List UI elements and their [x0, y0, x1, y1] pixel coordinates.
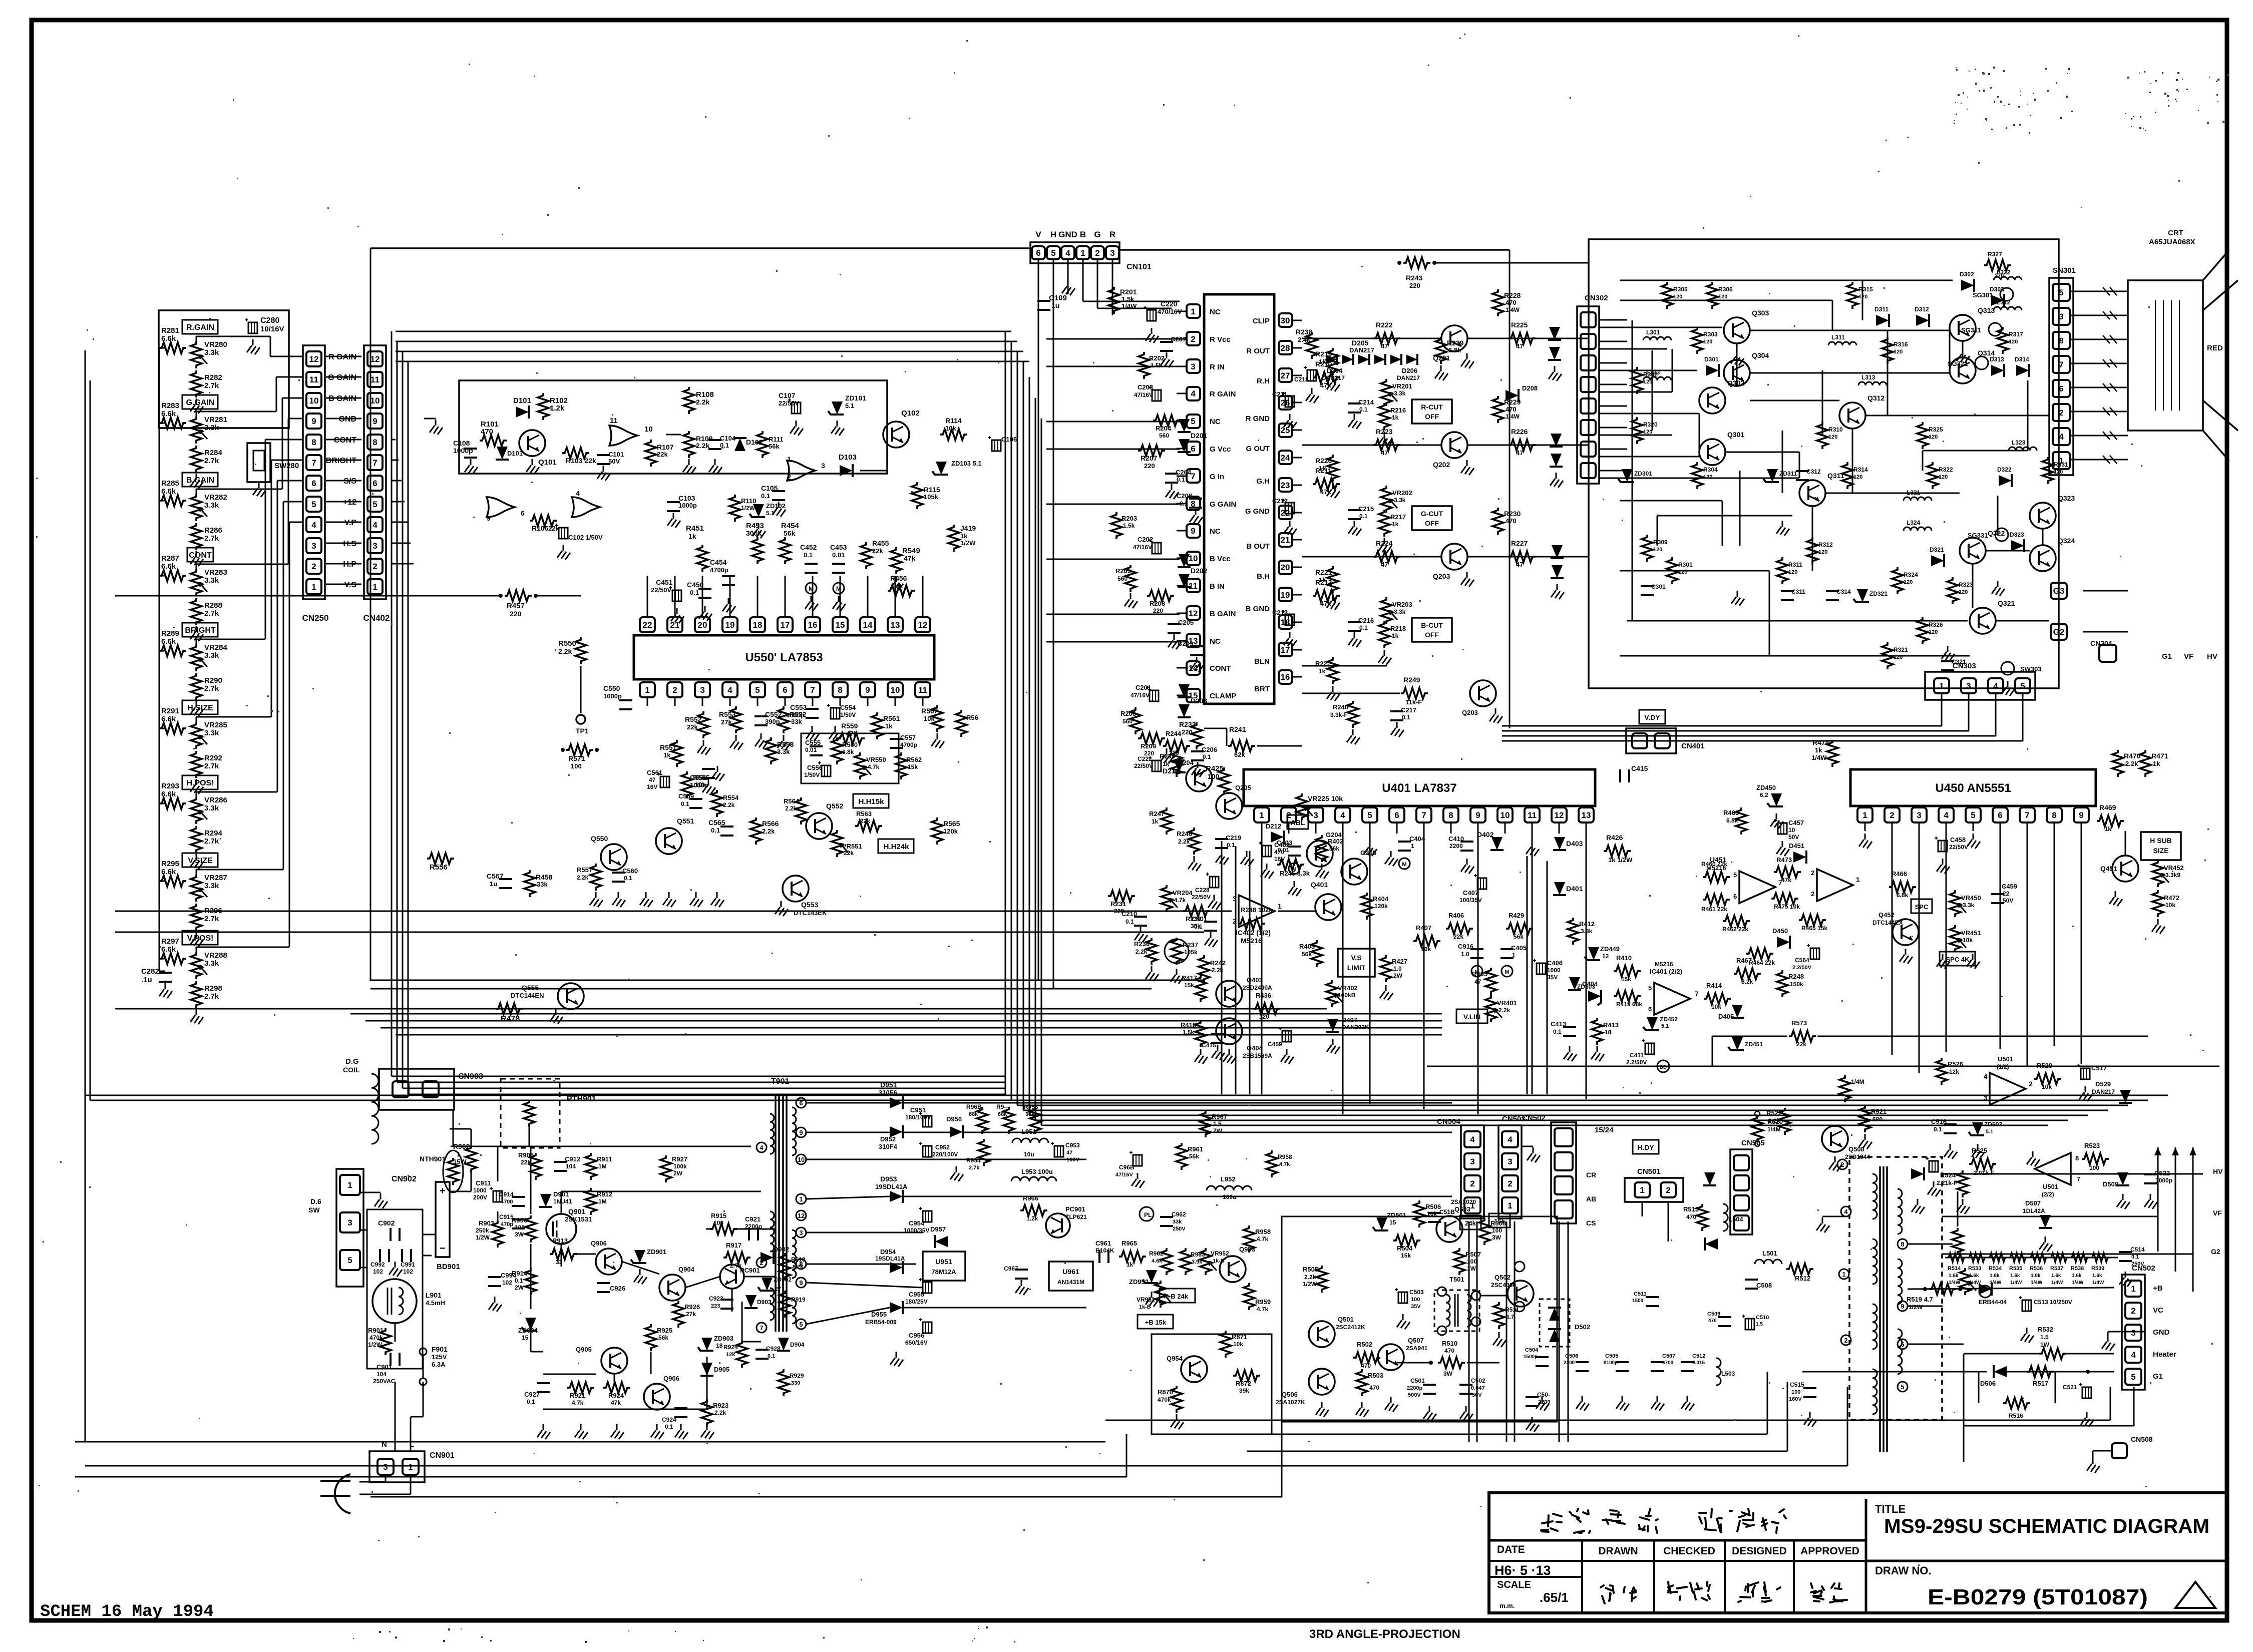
resistor R231b 1k BLN	[1327, 657, 1338, 684]
svg-text:NC: NC	[1210, 308, 1221, 316]
potentiometer VR283 3.3k	[191, 569, 202, 596]
svg-text:10: 10	[309, 396, 319, 405]
resistor R952 68k 1/4W	[1003, 1107, 1014, 1134]
resistor R919	[780, 1291, 791, 1318]
svg-text:R404: R404	[1373, 895, 1389, 903]
capacitor C516 0.1	[1944, 1123, 1957, 1125]
svg-text:C211: C211	[1272, 390, 1287, 398]
svg-text:C219: C219	[1226, 834, 1241, 842]
T901 secondary pin 1	[796, 1194, 806, 1204]
resistor R240 3.3k-F	[1347, 701, 1358, 728]
transistor Q301	[1699, 439, 1725, 465]
svg-text:15/24: 15/24	[1595, 1126, 1614, 1134]
resistor R535 1.6k 1/4W	[2009, 1253, 2027, 1262]
svg-text:C504: C504	[1525, 1347, 1539, 1353]
pin 30 of U201 (right)	[1279, 313, 1292, 327]
svg-text:1.7: 1.7	[1507, 1314, 1514, 1320]
svg-text:17: 17	[1281, 645, 1290, 655]
svg-text:R412: R412	[1579, 920, 1595, 928]
svg-text:C516: C516	[1931, 1118, 1947, 1125]
wire G1 line	[1802, 1371, 1987, 1373]
svg-text:22k: 22k	[860, 817, 870, 824]
diode D901 1NU41	[539, 1194, 552, 1207]
svg-text:102: 102	[502, 1279, 512, 1286]
svg-text:6: 6	[1998, 810, 2002, 820]
capacitor C213 25V	[1285, 614, 1294, 625]
svg-text:10u: 10u	[1024, 1151, 1034, 1158]
pin 2 of U550	[667, 682, 682, 697]
transistor Q550	[601, 844, 627, 870]
flyback supply box	[1282, 1216, 1557, 1422]
svg-text:2.2k: 2.2k	[2125, 760, 2138, 767]
capacitor C948 47/16V	[1133, 1155, 1142, 1166]
IC U401 LA7837	[1244, 769, 1595, 806]
resistor R203 1.5k 1/4W	[1111, 512, 1122, 539]
capacitor C105 0.1	[772, 490, 785, 492]
resistor R926 27k	[673, 1301, 684, 1328]
diode D322	[1999, 474, 2012, 487]
svg-text:R419 68k: R419 68k	[1616, 1001, 1642, 1008]
svg-text:0.1: 0.1	[1125, 918, 1134, 925]
resistor R208 220	[1147, 590, 1174, 601]
svg-text:R288: R288	[204, 601, 222, 610]
svg-text:R203: R203	[1121, 515, 1137, 522]
diode D951 310F6	[890, 1096, 903, 1109]
ground ZD102	[758, 523, 760, 529]
pin 27 of U201 (right)	[1279, 368, 1292, 382]
signature DRAWN 相川 (handwritten strokes)	[1601, 1585, 1614, 1603]
capacitor C450 0.1	[698, 588, 711, 590]
svg-text:R56: R56	[966, 714, 978, 721]
wire top rail	[370, 247, 1029, 249]
svg-text:1: 1	[1080, 248, 1085, 258]
svg-text:180/100V: 180/100V	[905, 1114, 931, 1121]
capacitor C406 1000 35V	[1537, 963, 1546, 974]
svg-text:DAN217: DAN217	[2092, 1088, 2115, 1095]
svg-text:1: 1	[1508, 1201, 1512, 1210]
capacitor C411 2.2/50V	[1645, 1043, 1654, 1054]
wire CN902 pins to filter	[360, 1229, 367, 1231]
resistor R410 15k	[1614, 966, 1641, 977]
svg-text:C557: C557	[900, 734, 916, 741]
svg-text:3: 3	[1110, 248, 1114, 258]
svg-text:6.6k: 6.6k	[161, 868, 176, 876]
svg-text:PL: PL	[1144, 1211, 1152, 1218]
svg-text:R567: R567	[921, 707, 938, 715]
resistor R522 2.2k	[1779, 1108, 1790, 1135]
svg-text:G3: G3	[2053, 586, 2065, 596]
svg-text:15k: 15k	[1184, 982, 1194, 989]
svg-text:CLIP: CLIP	[1253, 317, 1270, 325]
svg-text:2: 2	[1508, 1179, 1512, 1188]
svg-text:3: 3	[821, 462, 825, 470]
resistor R967 1.5 7W	[1200, 1110, 1211, 1137]
scan smudge top right	[1988, 73, 1990, 75]
transistor Q905	[601, 1348, 627, 1374]
svg-text:NC: NC	[1210, 637, 1221, 646]
resistor R905 22k	[530, 1153, 541, 1180]
svg-text:15k: 15k	[1401, 1252, 1411, 1259]
resistor R316	[1882, 337, 1893, 364]
svg-text:HV: HV	[2207, 652, 2217, 661]
svg-text:R470: R470	[2124, 752, 2141, 760]
svg-text:R327: R327	[1988, 251, 2002, 258]
resistor R533 1.6k 1/4W	[1968, 1253, 1986, 1262]
svg-text:7: 7	[1191, 472, 1195, 481]
svg-text:1/2W: 1/2W	[368, 1341, 383, 1348]
svg-text:Q302: Q302	[1727, 379, 1744, 387]
transistor Q101	[519, 430, 545, 456]
svg-text:4.6k: 4.6k	[1152, 1258, 1163, 1264]
svg-text:ZD101: ZD101	[845, 394, 866, 402]
svg-text:D955: D955	[871, 1311, 887, 1318]
svg-text:SW280: SW280	[274, 462, 299, 470]
svg-text:1: 1	[457, 1150, 460, 1158]
pin 13 of U550	[888, 617, 903, 632]
resistor R201 1.5k 1/4W	[1108, 287, 1119, 314]
svg-text:R403: R403	[1299, 943, 1315, 950]
resistor R523 100	[2082, 1153, 2109, 1164]
capacitor C956 650/16V	[923, 1322, 932, 1333]
svg-text:C560: C560	[622, 867, 638, 875]
svg-text:C213: C213	[1272, 609, 1288, 616]
svg-text:6: 6	[799, 1099, 803, 1107]
resistor R311	[1777, 557, 1788, 584]
ground under R292	[196, 779, 197, 785]
inductor L504	[1723, 1204, 1728, 1231]
wire VF long	[1942, 1173, 2203, 1175]
svg-text:CN502: CN502	[2132, 1264, 2155, 1273]
transistor Q401	[1315, 894, 1341, 920]
capacitor C912 104	[554, 1161, 567, 1163]
resistor R103 22k	[562, 448, 589, 459]
svg-text:1W: 1W	[2040, 1341, 2050, 1348]
wire horizontal mid-left y2015	[115, 1008, 1327, 1010]
connector CN302	[1577, 306, 1599, 484]
regulator U951 78M12A	[923, 1252, 965, 1281]
inductor L301	[1643, 337, 1671, 340]
wire stubs above U550 pins	[647, 576, 648, 610]
svg-text:1.6k: 1.6k	[1949, 1273, 1959, 1279]
svg-text:9: 9	[1901, 1303, 1904, 1310]
svg-text:2: 2	[1666, 1185, 1670, 1195]
wire bus CN402 to video IC (horizontal bundle)	[396, 331, 1011, 332]
svg-text:C512: C512	[1692, 1353, 1705, 1359]
svg-text:C101: C101	[608, 451, 624, 458]
flyback pin 4	[1841, 1206, 1851, 1216]
wire PSU R902 top	[471, 1129, 472, 1146]
svg-text:CN902: CN902	[392, 1175, 417, 1183]
T901 secondary pin 8	[796, 1259, 806, 1269]
svg-text:R473: R473	[1776, 856, 1792, 864]
svg-text:0.1: 0.1	[768, 1353, 775, 1359]
svg-text:A65JUA068X: A65JUA068X	[2149, 238, 2195, 246]
resistor R331	[2042, 457, 2053, 484]
svg-text:C410: C410	[1448, 835, 1464, 843]
capacitor C927 0.1	[537, 1382, 550, 1384]
transistor Q206 blanking	[1470, 680, 1496, 706]
svg-text:8: 8	[2075, 1154, 2079, 1162]
svg-text:ZD449: ZD449	[1600, 945, 1620, 953]
resistor R532 1.5 1W	[2039, 1348, 2066, 1359]
resistor R405 47	[1485, 968, 1496, 995]
svg-text:BLN: BLN	[1254, 657, 1270, 666]
svg-text:7W: 7W	[1213, 1127, 1223, 1134]
svg-text:VR225 10k: VR225 10k	[1308, 794, 1343, 802]
svg-text:18: 18	[716, 1342, 723, 1349]
svg-text:9: 9	[311, 417, 316, 426]
svg-text:R508: R508	[1490, 1219, 1506, 1227]
wire horizontal mid-left y1860	[115, 932, 1204, 933]
svg-text:VR450: VR450	[1961, 894, 1981, 902]
svg-text:5.1: 5.1	[845, 402, 854, 409]
svg-text:R558: R558	[777, 740, 794, 748]
svg-text:50V: 50V	[1788, 834, 1799, 841]
svg-text:R405: R405	[1472, 970, 1487, 978]
svg-text:+B: +B	[2153, 1284, 2163, 1293]
resistor R525 2.01k-F	[1969, 1158, 1996, 1169]
svg-text:3.3k: 3.3k	[204, 651, 219, 660]
svg-text:10k: 10k	[1233, 1341, 1243, 1348]
svg-text:R521: R521	[1871, 1108, 1887, 1115]
transistor Q503 2SA1020	[1436, 1216, 1462, 1242]
svg-text:470: 470	[1686, 1213, 1696, 1220]
pin 3 of CN303	[1961, 678, 1976, 693]
resistor R872 39k	[1233, 1370, 1260, 1381]
svg-text:R516: R516	[2009, 1412, 2023, 1419]
IC U201 video amp body	[1204, 294, 1274, 704]
svg-text:TLP621: TLP621	[1065, 1213, 1087, 1220]
svg-text:12k: 12k	[1949, 1068, 1959, 1075]
svg-text:D201: D201	[1191, 432, 1208, 440]
svg-text:R202: R202	[1149, 354, 1165, 362]
capacitor C554 1/50V	[831, 708, 840, 719]
svg-text:R533: R533	[1968, 1266, 1981, 1272]
svg-text:3.3k9: 3.3k9	[2165, 872, 2180, 879]
svg-text:R523: R523	[2084, 1142, 2100, 1149]
svg-text:GND: GND	[2153, 1328, 2170, 1337]
svg-text:150k: 150k	[1790, 981, 1803, 988]
flyback pin 2	[1841, 1335, 1851, 1345]
wires CN101 pins down	[1038, 259, 1039, 280]
svg-text:R321: R321	[1894, 646, 1908, 653]
svg-text:R: R	[1109, 230, 1115, 239]
resistor R561 1k	[872, 712, 883, 739]
svg-text:R961: R961	[1188, 1145, 1203, 1153]
svg-text:VR281: VR281	[204, 416, 227, 424]
pin 23 of U201 (right)	[1279, 478, 1292, 492]
svg-text:3: 3	[311, 541, 316, 551]
resistor R303	[1692, 327, 1703, 354]
capacitor C280 10/16V	[248, 322, 257, 333]
resistor R324	[1892, 567, 1903, 594]
wire bottom gnd rail PSU	[543, 1409, 707, 1410]
svg-text:SN301: SN301	[2053, 266, 2076, 275]
svg-text:D407: D407	[1342, 1016, 1357, 1024]
svg-text:C202: C202	[1138, 536, 1153, 543]
svg-text:Q553: Q553	[801, 901, 818, 909]
svg-text:1: 1	[787, 455, 791, 463]
video board extra mesh	[1620, 280, 1953, 281]
svg-text:D203: D203	[1191, 697, 1208, 705]
capacitor C955 180/25V	[923, 1282, 932, 1293]
resistor R519 4.7 1/2W jumper	[1929, 1284, 1956, 1295]
svg-text:R965: R965	[1121, 1240, 1137, 1247]
wire CN250 to CN402	[326, 460, 361, 461]
pin 9 of U550	[860, 682, 875, 697]
svg-text:6: 6	[311, 479, 316, 488]
resistor R466 6.8k	[1889, 882, 1916, 893]
svg-text:R410: R410	[1616, 954, 1632, 962]
resistor R521 680	[1859, 1105, 1870, 1132]
capacitor C282 0.1u	[159, 972, 172, 974]
wire CN250 to CN402	[326, 376, 361, 378]
svg-text:D905: D905	[714, 1366, 729, 1373]
svg-text:120: 120	[1929, 434, 1938, 440]
resistor R248b 150k	[1777, 970, 1788, 997]
ground C108	[470, 459, 472, 465]
svg-text:.65/1: .65/1	[1540, 1590, 1569, 1605]
svg-text:R311: R311	[1788, 561, 1802, 568]
resistor R114 10k	[940, 429, 967, 440]
svg-text:4700: 4700	[501, 1199, 513, 1205]
svg-text:U550' LA7853: U550' LA7853	[745, 651, 823, 664]
svg-text:1k: 1k	[1126, 1261, 1134, 1268]
pot VR202 3.3k	[1381, 486, 1392, 513]
svg-text:VR452: VR452	[2164, 864, 2184, 872]
svg-text:1.2k: 1.2k	[550, 404, 565, 412]
svg-text:310F6: 310F6	[879, 1089, 897, 1096]
svg-text:C967: C967	[1004, 1265, 1018, 1272]
wire pot VR288 to connector CN250 pin 4	[196, 947, 197, 952]
svg-text:1/2W: 1/2W	[476, 1234, 490, 1241]
resistor R911 1M	[585, 1153, 596, 1180]
svg-text:R111: R111	[769, 436, 784, 443]
svg-text:C209: C209	[1178, 640, 1193, 647]
svg-text:4: 4	[760, 1144, 764, 1151]
resistor R309	[1642, 535, 1653, 562]
transistor Q302	[1699, 387, 1725, 414]
svg-text:R561: R561	[883, 714, 900, 722]
pin 2 of U201 (left)	[1187, 332, 1200, 345]
ground under R286	[196, 551, 197, 557]
svg-text:R OUT: R OUT	[1246, 347, 1270, 355]
capacitor C201 47/16V	[1150, 690, 1159, 701]
pot VR450 3.3k	[1950, 890, 1961, 917]
svg-text:6.6k: 6.6k	[161, 409, 176, 418]
svg-text:C214: C214	[1358, 398, 1374, 406]
resistor R526 12k	[1936, 1058, 1947, 1085]
svg-text:10: 10	[798, 1156, 805, 1163]
svg-text:0.015: 0.015	[1692, 1360, 1705, 1366]
label box V.LIN	[1456, 1009, 1487, 1023]
resistor R963 3.9k	[1180, 1248, 1191, 1275]
svg-text:2: 2	[1470, 1179, 1474, 1188]
svg-text:120: 120	[1643, 379, 1652, 385]
svg-text:Q506: Q506	[1282, 1391, 1298, 1398]
svg-text:1k: 1k	[960, 532, 968, 540]
svg-text:Q203: Q203	[1462, 709, 1478, 716]
pin 22 of U550	[640, 617, 655, 632]
svg-text:1M: 1M	[598, 1163, 607, 1170]
pin 7 of U401	[1416, 807, 1431, 822]
transistor Q451	[2112, 856, 2138, 882]
svg-text:3.3k: 3.3k	[1963, 902, 1975, 909]
svg-text:8: 8	[1901, 1241, 1904, 1248]
svg-text:C50-: C50-	[1537, 1391, 1550, 1398]
svg-text:1.6k: 1.6k	[1990, 1273, 2000, 1279]
wire R OUT	[1302, 338, 1442, 339]
T901 secondary winding	[792, 1107, 796, 1155]
svg-text:R103 22k: R103 22k	[566, 457, 596, 465]
wire left rail	[159, 881, 165, 882]
capacitor C228 22/50V	[1210, 877, 1219, 888]
svg-text:14: 14	[863, 620, 873, 630]
resistor R914 0.1 2W	[525, 1268, 536, 1295]
pot VR951 1k-B	[1155, 1281, 1166, 1308]
svg-text:R-CUT: R-CUT	[1421, 403, 1443, 411]
connector CN504	[1461, 1125, 1484, 1218]
wire ZD904 rail	[530, 1324, 532, 1352]
focus divider resistor	[1952, 1228, 1963, 1255]
svg-text:VR287: VR287	[204, 874, 227, 882]
bottom long wire 7	[370, 1496, 1282, 1498]
svg-text:33k: 33k	[1025, 1111, 1035, 1117]
pin 19 of U550	[722, 617, 737, 632]
svg-text:1: 1	[2059, 456, 2063, 466]
resistor R314	[1842, 462, 1853, 489]
pin 15 of U550	[833, 617, 848, 632]
svg-text:D451: D451	[1789, 842, 1804, 850]
svg-text:47k: 47k	[1781, 877, 1791, 884]
svg-text:R536: R536	[2030, 1266, 2043, 1272]
ground CN101 pin4	[1067, 270, 1069, 280]
svg-text:0.047: 0.047	[1471, 1385, 1485, 1391]
primary wires	[451, 1146, 751, 1147]
svg-text:D956: D956	[946, 1115, 962, 1123]
svg-text:10k: 10k	[945, 425, 956, 432]
svg-text:R475 10k: R475 10k	[1774, 903, 1800, 910]
svg-text:2: 2	[1191, 334, 1195, 344]
svg-text:100: 100	[2089, 1164, 2099, 1171]
opamp U451 second	[1817, 869, 1853, 901]
svg-text:R281: R281	[161, 326, 179, 335]
pin 16 of U550	[805, 617, 820, 632]
resistor R470 2.2k	[2112, 750, 2123, 777]
ground for C282	[165, 983, 166, 989]
resistor R281 6.6k	[159, 342, 186, 353]
resistor R463 6.8k	[1736, 807, 1747, 835]
svg-text:1: 1	[1411, 843, 1414, 850]
resistor R870 470k	[1171, 1386, 1182, 1413]
svg-text:C203: C203	[1138, 383, 1153, 391]
flyback pin 8	[1898, 1239, 1908, 1249]
capacitor C552 390p	[755, 715, 768, 717]
svg-text:R903: R903	[479, 1219, 494, 1227]
svg-text:R325: R325	[1929, 426, 1943, 433]
svg-text:105k: 105k	[1184, 949, 1198, 956]
svg-text:ZD502: ZD502	[1984, 1121, 2002, 1128]
capacitor C454 4700p	[722, 575, 735, 577]
svg-text:19SDL41A: 19SDL41A	[875, 1255, 905, 1262]
thermistor NTH901	[443, 1150, 463, 1192]
svg-text:1/4W: 1/4W	[1949, 1280, 1961, 1286]
svg-text:2.4k: 2.4k	[1298, 336, 1311, 343]
connector CN505	[1730, 1149, 1752, 1234]
svg-text:ZD301: ZD301	[1634, 470, 1652, 477]
svg-text:CRT: CRT	[2168, 229, 2183, 237]
resistor R305	[1662, 282, 1673, 309]
